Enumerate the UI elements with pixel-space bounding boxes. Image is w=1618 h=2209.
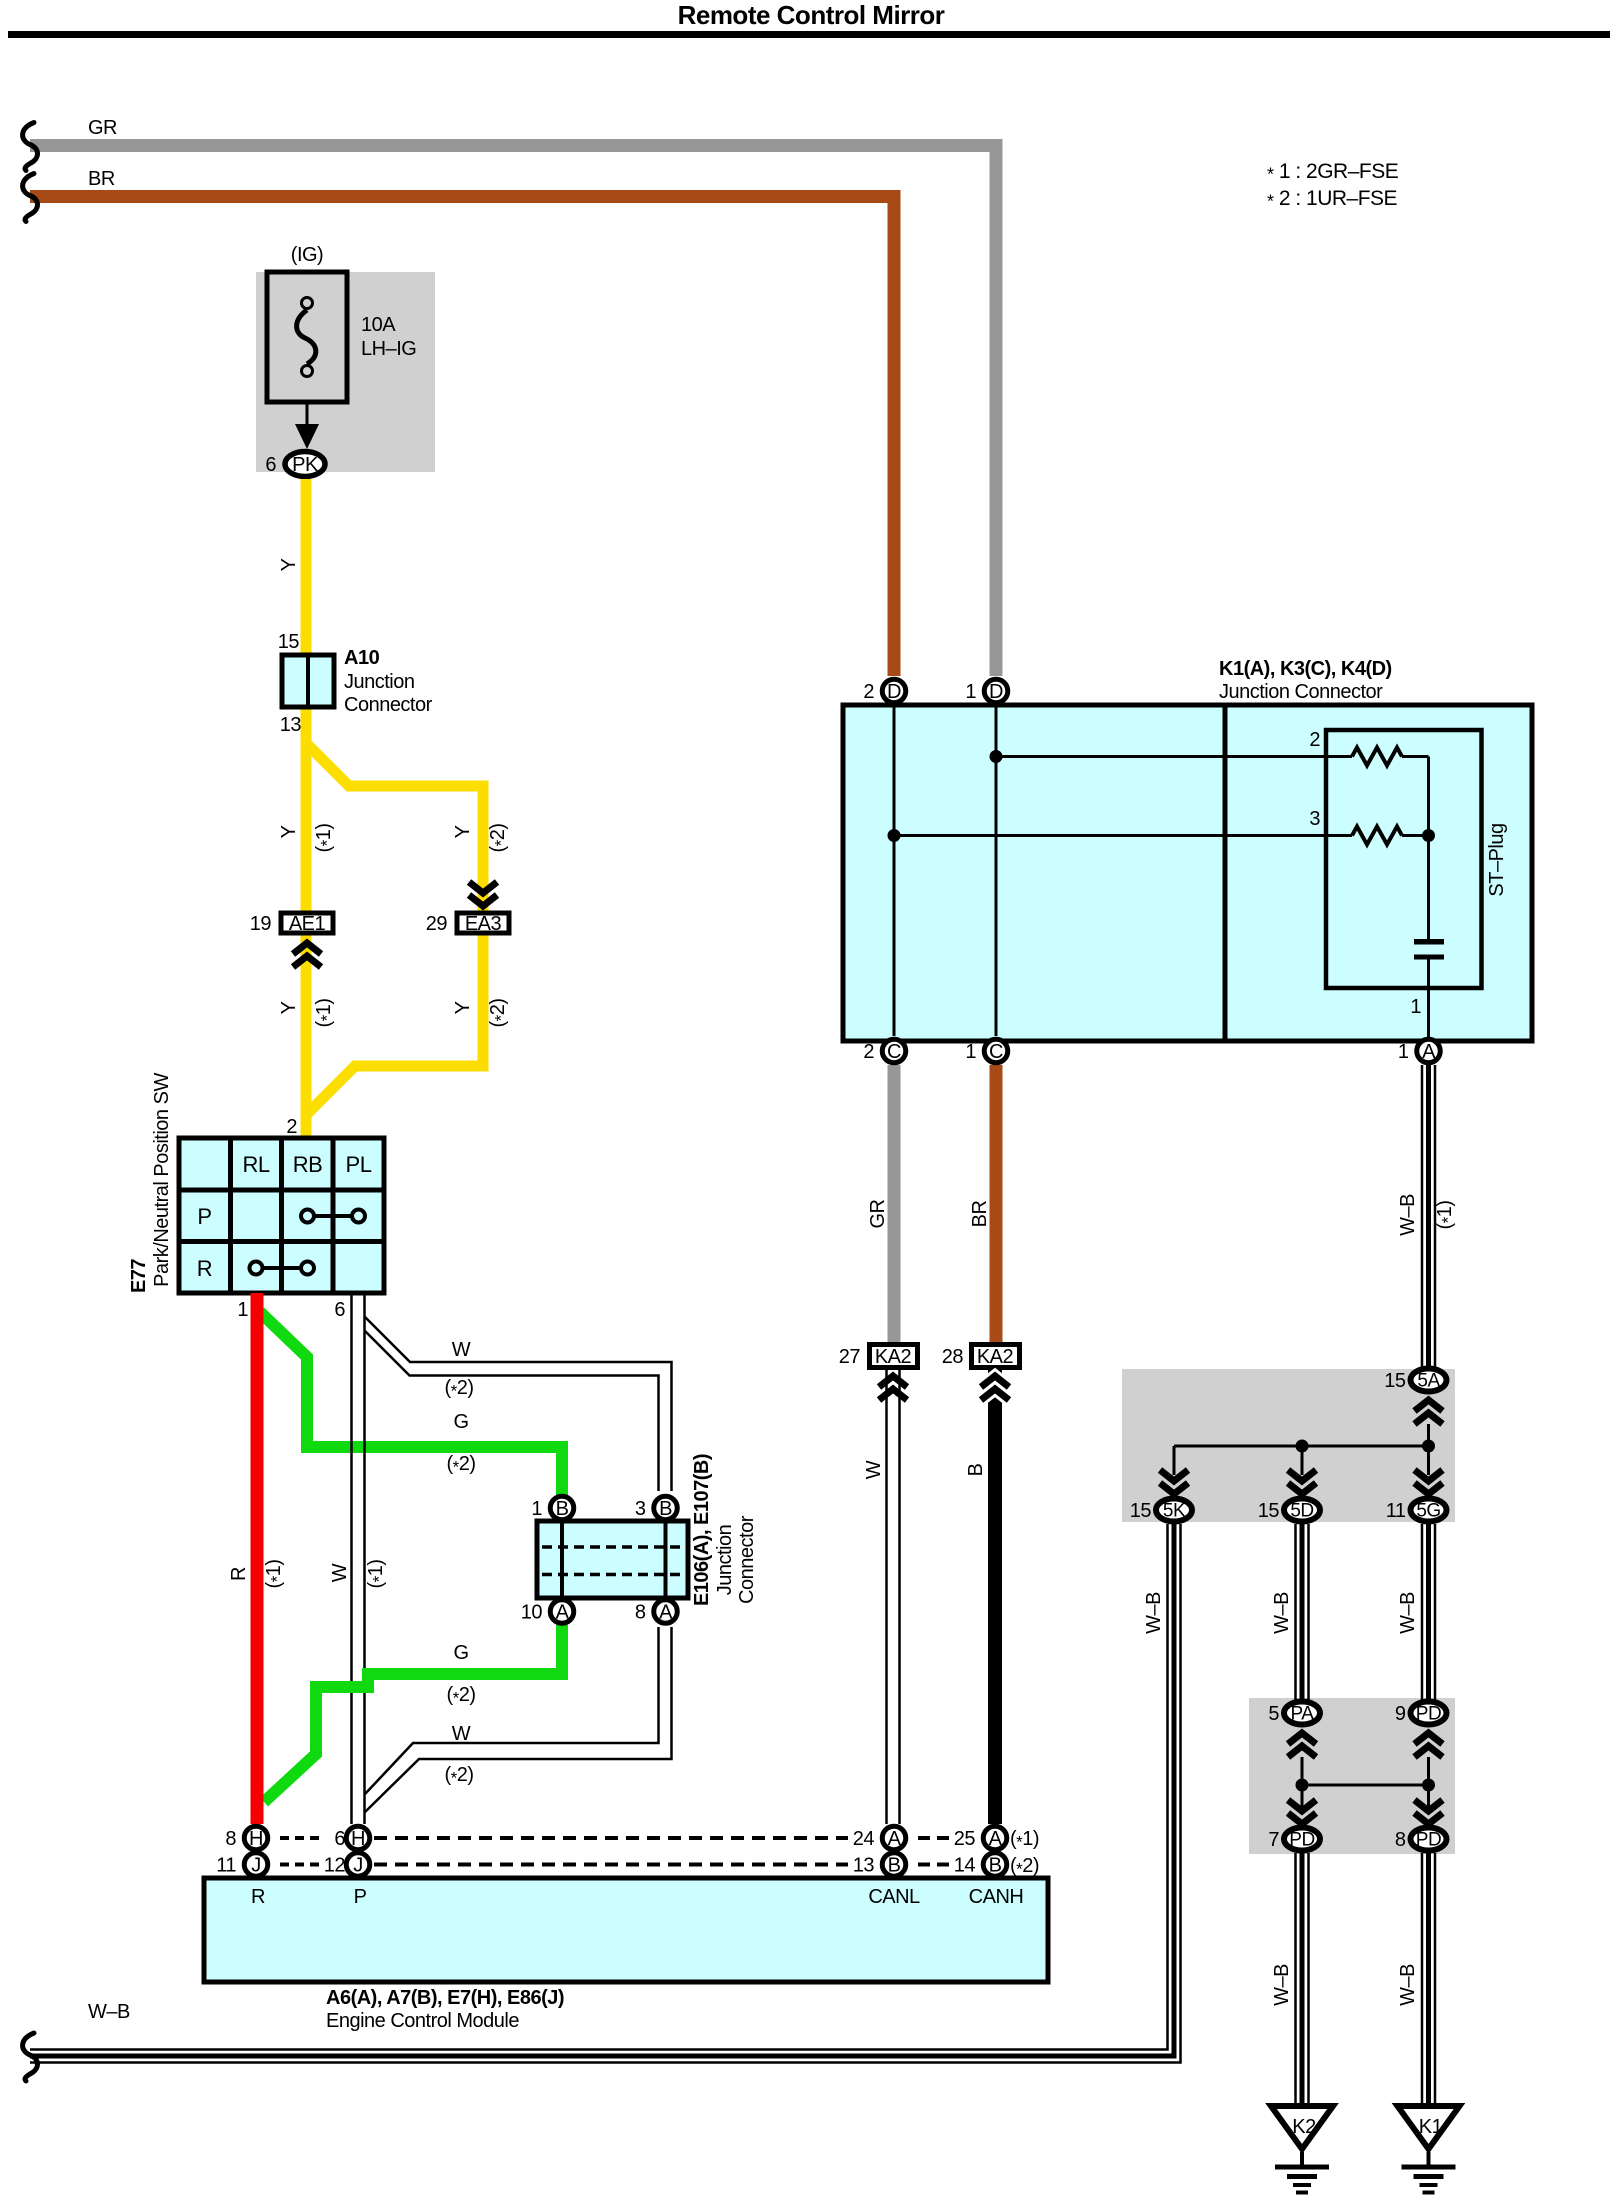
svg-text:A: A <box>989 1828 1003 1850</box>
svg-text:Park/Neutral Position SW: Park/Neutral Position SW <box>151 1073 173 1287</box>
ST-Plug inner box <box>1326 730 1482 988</box>
svg-text:8: 8 <box>635 1602 646 1624</box>
svg-text:6: 6 <box>334 1828 345 1850</box>
svg-text:B: B <box>888 1855 901 1877</box>
connector 19 AE1 <box>281 913 333 933</box>
svg-text:(*1): (*1) <box>313 823 337 852</box>
svg-text:W: W <box>452 1723 471 1745</box>
svg-text:C: C <box>887 1041 901 1063</box>
connector 11 (5G) <box>1411 1499 1447 1522</box>
svg-text:R: R <box>228 1567 250 1581</box>
wire PA to bus node <box>1301 1757 1304 1810</box>
wire 5A to branch node <box>1427 1424 1430 1446</box>
svg-text:J: J <box>251 1855 261 1877</box>
svg-text:W–B: W–B <box>88 2001 130 2023</box>
svg-text:Remote Control Mirror: Remote Control Mirror <box>678 0 945 30</box>
svg-text:7: 7 <box>1268 1829 1279 1851</box>
wire from pin 2(D) down inside K1 box <box>893 706 896 1036</box>
ECM dashes 11J-12J <box>280 1863 319 1867</box>
junction dot at 5D branch <box>1296 1440 1309 1453</box>
fuse element <box>302 298 313 309</box>
chevron arrow into 27 KA2 <box>879 1376 907 1387</box>
wire from pin 1(D) down inside K1 box <box>995 706 998 1036</box>
svg-text:6: 6 <box>334 1299 345 1321</box>
continuation squiggle GR <box>23 123 38 171</box>
svg-text:2: 2 <box>286 1116 297 1138</box>
svg-text:11: 11 <box>216 1855 236 1877</box>
continuation squiggle W-B bus <box>23 2033 38 2081</box>
svg-text:8: 8 <box>225 1828 236 1850</box>
wire R (red) E77 pin 1 to ECM 8(H) <box>251 1293 264 1824</box>
svg-text:14: 14 <box>954 1855 976 1877</box>
junction dot resistor 3 output <box>1422 829 1435 842</box>
pin 10 (A) of E106 <box>550 1600 574 1624</box>
svg-text:A10: A10 <box>344 647 380 669</box>
svg-text:1: 1 <box>965 1041 976 1063</box>
wire W (white) E77 pin 6 to ECM 6(H) <box>350 1293 353 1824</box>
connector 15 (5K) <box>1156 1499 1192 1522</box>
svg-text:15: 15 <box>1384 1370 1406 1392</box>
svg-text:27: 27 <box>839 1346 861 1368</box>
svg-text:10: 10 <box>521 1602 543 1624</box>
svg-text:(*1): (*1) <box>365 1559 389 1588</box>
svg-text:5: 5 <box>1268 1703 1279 1725</box>
engine control module box <box>204 1878 1048 1982</box>
svg-text:CANL: CANL <box>868 1886 920 1908</box>
svg-text:19: 19 <box>250 913 272 935</box>
svg-text:E106(A), E107(B): E106(A), E107(B) <box>691 1454 713 1606</box>
K1 box divider <box>1223 705 1228 1041</box>
ground K1 <box>1398 2106 1460 2149</box>
E77 grid lines <box>228 1138 233 1293</box>
chevron arrow into 5A <box>1415 1400 1443 1411</box>
svg-text:H: H <box>351 1828 365 1850</box>
fuse 10A LH-IG box <box>267 272 347 402</box>
wire capacitor to pin 1 <box>1427 960 1430 1038</box>
connector 15 (5A) <box>1411 1369 1447 1392</box>
svg-text:9: 9 <box>1395 1703 1406 1725</box>
svg-text:EA3: EA3 <box>465 913 502 935</box>
E106 dashed lines <box>542 1545 683 1549</box>
svg-text:PD: PD <box>1289 1830 1314 1851</box>
connector 15 (5D) <box>1284 1499 1320 1522</box>
svg-text:B: B <box>989 1855 1002 1877</box>
svg-text:29: 29 <box>426 913 448 935</box>
svg-text:(*2): (*2) <box>446 1684 475 1708</box>
continuation squiggle BR <box>23 174 38 222</box>
svg-text:RB: RB <box>293 1152 323 1177</box>
svg-text:Y: Y <box>452 1001 474 1014</box>
wire branch to 5D <box>1301 1446 1304 1475</box>
connector pin 6 (PK) <box>285 452 325 477</box>
svg-text:B: B <box>556 1498 569 1520</box>
svg-text:B: B <box>659 1498 672 1520</box>
svg-text:(*2): (*2) <box>444 1764 473 1788</box>
ECM pin 25 (A) <box>983 1826 1007 1850</box>
wire W-B 8(PD) to ground K1 <box>1421 1853 1424 2103</box>
svg-text:13: 13 <box>280 714 302 736</box>
wire W-B from 5K to ground bus <box>30 1524 1168 2050</box>
svg-text:PK: PK <box>292 454 319 476</box>
svg-text:P: P <box>197 1204 211 1229</box>
wire GR (gray) from left, turns down to 1(D) <box>30 146 996 677</box>
svg-text:(IG): (IG) <box>291 244 323 266</box>
svg-text:GR: GR <box>88 117 117 139</box>
resistor (pin 2) in ST-Plug <box>1352 748 1402 766</box>
wire W-B (*1) 1(A) to 15 5A <box>1421 1065 1424 1367</box>
svg-text:A: A <box>556 1602 570 1624</box>
svg-text:(*2): (*2) <box>1010 1855 1039 1879</box>
svg-text:15: 15 <box>1258 1500 1280 1522</box>
svg-text:R: R <box>197 1256 212 1281</box>
connector 8 (PD) <box>1411 1828 1447 1851</box>
wire W KA2 to ECM 24(A) <box>885 1370 888 1824</box>
svg-text:W–B: W–B <box>1271 1592 1293 1634</box>
svg-text:W–B: W–B <box>1271 1964 1293 2006</box>
svg-text:6: 6 <box>265 454 276 476</box>
svg-text:Junction: Junction <box>714 1525 736 1596</box>
svg-text:B: B <box>965 1463 987 1476</box>
svg-text:(*2): (*2) <box>444 1377 473 1401</box>
svg-text:2: 2 <box>863 681 874 703</box>
svg-text:LH–IG: LH–IG <box>361 338 416 360</box>
svg-text:2: 2 <box>863 1041 874 1063</box>
svg-text:Y: Y <box>452 825 474 838</box>
wire BR 1(C) to 28 KA2 <box>990 1065 1003 1342</box>
svg-text:W: W <box>452 1339 471 1361</box>
wire node to resistor 3 <box>894 834 1352 837</box>
svg-text:28: 28 <box>942 1346 964 1368</box>
svg-text:Y: Y <box>278 1001 300 1014</box>
svg-text:W–B: W–B <box>1397 1592 1419 1634</box>
svg-text:(*1): (*1) <box>1434 1200 1458 1229</box>
wire G (green) upper branch to E106 1(B) <box>260 1312 562 1496</box>
svg-text:Y: Y <box>278 558 300 571</box>
svg-text:Connector: Connector <box>344 694 433 716</box>
switch contact P (RB-PL) <box>314 1214 352 1218</box>
switch E77 box <box>179 1138 384 1293</box>
ECM dashes 24A-25A <box>918 1836 949 1840</box>
svg-text:PL: PL <box>346 1152 372 1177</box>
svg-text:(*2): (*2) <box>487 823 511 852</box>
wire node to resistor 2 <box>996 755 1352 758</box>
pin 1 (D) of K1 box <box>984 679 1008 703</box>
wire BR (brown) from left, turns down to 2(D) <box>30 197 894 677</box>
connector 9 (PD) <box>1411 1702 1447 1725</box>
svg-text:BR: BR <box>88 168 115 190</box>
svg-text:K1(A), K3(C), K4(D): K1(A), K3(C), K4(D) <box>1219 658 1392 680</box>
svg-text:(*2): (*2) <box>446 1453 475 1477</box>
gray shaded box around fuse LH-IG <box>256 272 435 472</box>
connector 5 (PA) <box>1284 1702 1320 1725</box>
connector 28 KA2 <box>972 1345 1020 1368</box>
ECM pin 13 (B) <box>882 1853 906 1877</box>
svg-text:Junction Connector: Junction Connector <box>1219 681 1383 703</box>
pin 1 (C) of K1 box <box>984 1039 1008 1063</box>
svg-text:3: 3 <box>635 1498 646 1520</box>
chevron arrow into PA <box>1288 1733 1316 1744</box>
connector 27 KA2 <box>870 1345 918 1368</box>
chevron arrow into 5G <box>1415 1470 1443 1481</box>
junction connector A10 <box>282 655 334 707</box>
wire GR 2(C) to 27 KA2 <box>888 1065 901 1342</box>
svg-text:CANH: CANH <box>969 1886 1024 1908</box>
svg-text:* 1 : 2GR–FSE: * 1 : 2GR–FSE <box>1267 160 1399 185</box>
ground K2 <box>1271 2106 1333 2149</box>
svg-text:R: R <box>251 1886 265 1908</box>
ECM dashes 13B-14B <box>918 1863 949 1867</box>
gray shaded box (junction block PA/PD) <box>1249 1698 1455 1854</box>
svg-text:J: J <box>353 1855 363 1877</box>
wire W-B 5G to 9(PD) <box>1421 1524 1424 1700</box>
svg-text:* 2 : 1UR–FSE: * 2 : 1UR–FSE <box>1267 187 1398 212</box>
svg-text:A: A <box>888 1828 902 1850</box>
ECM pin 6 (H) <box>346 1826 370 1850</box>
svg-text:K1: K1 <box>1419 2116 1443 2138</box>
wire W-B 7(PD) to ground K2 <box>1294 1853 1297 2103</box>
junction dot PA bus <box>1296 1779 1309 1792</box>
svg-text:D: D <box>887 681 901 703</box>
ECM pin 8 (H) <box>244 1826 268 1850</box>
svg-text:2: 2 <box>1309 729 1320 751</box>
wire W (white) upper branch to E106 3(B) <box>365 1317 672 1491</box>
wire fuse to pin 6 PK with arrow <box>306 402 309 426</box>
svg-text:(*1): (*1) <box>313 998 337 1027</box>
svg-text:1: 1 <box>531 1498 542 1520</box>
svg-text:Engine Control Module: Engine Control Module <box>326 2010 519 2032</box>
ECM dashes 8H-6H <box>280 1836 319 1840</box>
wire G (green) lower from E106 10(A) <box>264 1625 562 1802</box>
gray shaded box (junction block 5A/5K/5D/5G) <box>1122 1369 1455 1522</box>
svg-text:25: 25 <box>954 1828 976 1850</box>
svg-text:8: 8 <box>1395 1829 1406 1851</box>
svg-text:15: 15 <box>1130 1500 1152 1522</box>
junction dot at 5G branch <box>1422 1440 1435 1453</box>
svg-text:12: 12 <box>324 1855 346 1877</box>
svg-text:1: 1 <box>237 1299 248 1321</box>
chevron arrow into EA3 <box>469 882 497 893</box>
svg-text:1: 1 <box>1410 996 1421 1018</box>
svg-text:24: 24 <box>853 1828 875 1850</box>
svg-text:W: W <box>329 1563 351 1582</box>
bus line PA-PD <box>1302 1784 1429 1787</box>
svg-text:ST–Plug: ST–Plug <box>1486 823 1508 896</box>
ECM pin 24 (A) <box>882 1826 906 1850</box>
ECM dashes 12J-13B <box>374 1863 848 1867</box>
vertical wire in ST-Plug <box>1427 757 1430 940</box>
svg-text:1: 1 <box>1398 1041 1409 1063</box>
branch bus line <box>1174 1445 1429 1448</box>
svg-text:KA2: KA2 <box>875 1346 912 1368</box>
junction connector K1(A), K3(C), K4(D) box <box>843 705 1532 1041</box>
svg-text:5G: 5G <box>1416 1501 1440 1522</box>
svg-text:W–B: W–B <box>1397 1964 1419 2006</box>
ECM pin 11 (J) <box>244 1853 268 1877</box>
pin 1 (A) of K1 box <box>1417 1039 1441 1063</box>
wire 9PD to bus node <box>1427 1757 1430 1810</box>
svg-text:(*2): (*2) <box>487 998 511 1027</box>
switch contact R (RL-RB) <box>262 1266 301 1270</box>
svg-text:KA2: KA2 <box>977 1346 1014 1368</box>
svg-text:5D: 5D <box>1290 1501 1313 1522</box>
svg-text:H: H <box>249 1828 263 1850</box>
wire Y branch from EA3 (lower) <box>307 935 483 1114</box>
svg-text:GR: GR <box>867 1199 889 1228</box>
ECM pin 12 (J) <box>346 1853 370 1877</box>
svg-text:1: 1 <box>965 681 976 703</box>
connector 7 (PD) <box>1284 1828 1320 1851</box>
wire B (black) KA2 to ECM 25(A) <box>988 1370 1002 1824</box>
wire W-B 5D to 5(PA) <box>1294 1524 1297 1700</box>
wire W (white) lower from E106 8(A) <box>365 1627 672 1812</box>
junction dot PD bus <box>1422 1779 1435 1792</box>
svg-text:D: D <box>989 681 1003 703</box>
pin 8 (A) of E107 <box>654 1600 678 1624</box>
svg-text:BR: BR <box>969 1201 991 1228</box>
svg-text:13: 13 <box>853 1855 875 1877</box>
chevron arrow into 28 KA2 <box>981 1376 1009 1387</box>
svg-text:Y: Y <box>278 825 300 838</box>
capacitor C in ST-Plug <box>1414 939 1444 945</box>
svg-text:PD: PD <box>1416 1704 1441 1725</box>
svg-text:(*1): (*1) <box>263 1559 287 1588</box>
resistor (pin 3) in ST-Plug <box>1352 827 1402 845</box>
junction dot at 1(D) branch <box>990 750 1003 763</box>
svg-text:G: G <box>453 1642 468 1664</box>
svg-text:AE1: AE1 <box>289 913 326 935</box>
svg-text:A: A <box>1422 1041 1436 1063</box>
svg-text:5K: 5K <box>1163 1501 1186 1522</box>
svg-text:G: G <box>453 1411 468 1433</box>
svg-text:Connector: Connector <box>736 1515 758 1604</box>
chevron arrow into 9 PD <box>1415 1733 1443 1744</box>
connector 29 EA3 <box>457 913 509 933</box>
svg-text:C: C <box>989 1041 1003 1063</box>
pin 2 (D) of K1 box <box>882 679 906 703</box>
pin 2 (C) of K1 box <box>882 1039 906 1063</box>
E106 inner verticals <box>560 1521 564 1598</box>
wire branch to 5K <box>1173 1446 1176 1475</box>
svg-text:W–B: W–B <box>1143 1592 1165 1634</box>
chevron arrow into 5K <box>1160 1470 1188 1481</box>
svg-text:PA: PA <box>1291 1704 1315 1725</box>
svg-text:P: P <box>354 1886 367 1908</box>
chevron arrow into 5D <box>1288 1470 1316 1481</box>
svg-text:5A: 5A <box>1417 1371 1440 1392</box>
svg-text:(*1): (*1) <box>1010 1828 1039 1852</box>
svg-text:W: W <box>863 1460 885 1479</box>
svg-text:E77: E77 <box>128 1259 150 1293</box>
pin 1 (B) of E106 <box>550 1496 574 1520</box>
wire Y main (PK to E77 pin 2) <box>301 479 312 1138</box>
junction dot at 2(D) branch <box>888 829 901 842</box>
svg-text:RL: RL <box>242 1152 269 1177</box>
pin 3 (B) of E107 <box>654 1496 678 1520</box>
ECM dashes 6H-24A <box>374 1836 848 1840</box>
svg-text:3: 3 <box>1309 808 1320 830</box>
wire branch to 5G <box>1427 1446 1430 1475</box>
wire Y branch to EA3 (upper) <box>306 743 483 911</box>
chevron arrow into 8 PD <box>1415 1800 1443 1811</box>
chevron arrow into 7 PD <box>1288 1800 1316 1811</box>
junction connector E106(A), E107(B) box <box>537 1521 688 1598</box>
svg-text:10A: 10A <box>361 314 396 336</box>
svg-text:W–B: W–B <box>1397 1194 1419 1236</box>
svg-text:A6(A), A7(B), E7(H), E86(J): A6(A), A7(B), E7(H), E86(J) <box>326 1987 564 2009</box>
svg-text:K2: K2 <box>1292 2116 1316 2138</box>
ECM pin 14 (B) <box>983 1853 1007 1877</box>
title rule <box>8 31 1610 38</box>
chevron arrow into AE1 <box>293 943 321 954</box>
svg-text:PD: PD <box>1416 1830 1441 1851</box>
svg-text:Junction: Junction <box>344 671 415 693</box>
svg-text:15: 15 <box>278 631 300 653</box>
svg-text:11: 11 <box>1386 1500 1406 1522</box>
svg-text:A: A <box>659 1602 673 1624</box>
